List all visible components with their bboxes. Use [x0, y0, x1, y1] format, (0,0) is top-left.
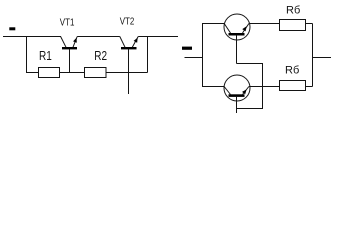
wire output stub	[313, 57, 332, 59]
wire right bus	[312, 24, 314, 87]
resistor R1	[39, 68, 60, 78]
resistor R6 top	[280, 20, 306, 31]
transistor VT2	[120, 37, 138, 95]
svg-text:Rб: Rб	[286, 5, 300, 17]
minus terminal left circuit	[9, 27, 15, 30]
wire top rail segment 2	[77, 36, 120, 38]
resistor R2	[85, 68, 107, 78]
transistor VT1	[61, 37, 78, 73]
wire Q1 base horizontal	[237, 63, 264, 65]
wire bottom rail R2 to emitter drop	[106, 72, 148, 74]
svg-text:VT2: VT2	[120, 16, 135, 27]
wire left bus	[202, 24, 204, 87]
resistor R6 bottom	[280, 81, 306, 91]
svg-text:R2: R2	[94, 49, 107, 64]
transistor Q2 bottom	[224, 75, 250, 101]
wire drop to R1	[26, 37, 28, 73]
wire Q2 base horizontal	[237, 108, 264, 110]
wire bottom rail R1 to R2	[60, 72, 85, 74]
wire minus input	[185, 57, 204, 59]
minus terminal right circuit	[182, 47, 192, 50]
wire Q1 emitter to R6 top	[249, 23, 280, 25]
wire bottom row left	[202, 86, 224, 88]
wire Q1 base lead down	[236, 35, 238, 64]
svg-text:VT1: VT1	[60, 17, 75, 28]
wire VT2 emitter drop	[147, 37, 149, 73]
wire Q2 base lead down	[236, 97, 238, 113]
wire R6 top to right bus	[306, 23, 313, 25]
svg-text:Rб: Rб	[285, 65, 299, 77]
transistor Q1 top	[224, 14, 250, 40]
wire top rail segment 3	[138, 36, 178, 38]
wire R6 bottom to right bus	[306, 86, 313, 88]
wire Q2 emitter to R6 bottom	[249, 86, 280, 88]
svg-text:R1: R1	[39, 49, 52, 64]
wire top row left	[202, 23, 224, 25]
wire top rail segment 1	[3, 36, 61, 38]
wire base bus vertical	[262, 64, 264, 109]
wire bottom rail to R1	[26, 72, 39, 74]
